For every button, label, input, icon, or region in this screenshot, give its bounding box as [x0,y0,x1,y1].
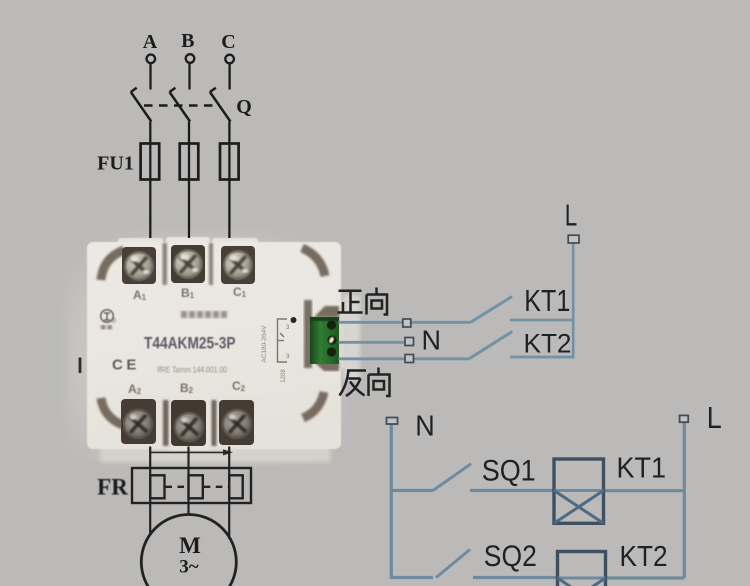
svg-text:FU1: FU1 [97,153,134,175]
svg-text:3~: 3~ [179,557,199,578]
svg-text:L: L [707,400,722,435]
svg-text:M: M [179,533,201,558]
svg-text:AC180-264V: AC180-264V [261,325,268,363]
svg-text:T44AKM25-3P: T44AKM25-3P [144,334,236,353]
svg-text:KT1: KT1 [524,283,570,318]
svg-text:SQ1: SQ1 [482,455,536,488]
svg-text:A: A [143,31,158,53]
svg-text:FR: FR [97,475,128,500]
svg-text:®: ® [111,317,117,325]
svg-text:N: N [415,411,435,443]
svg-text:1208: 1208 [281,369,287,383]
svg-text:L: L [565,199,578,233]
svg-text:KT2: KT2 [524,328,572,358]
svg-text:CE: CE [112,357,140,374]
svg-text:KT2: KT2 [620,541,668,573]
svg-text:N: N [422,325,442,356]
svg-text:SQ2: SQ2 [484,540,537,573]
svg-text:B: B [181,30,194,52]
svg-text:C: C [221,31,235,53]
svg-text:Q: Q [236,96,252,118]
svg-text:IfRE Tamm 144.001.00: IfRE Tamm 144.001.00 [157,366,227,375]
svg-text:KT1: KT1 [617,453,667,485]
